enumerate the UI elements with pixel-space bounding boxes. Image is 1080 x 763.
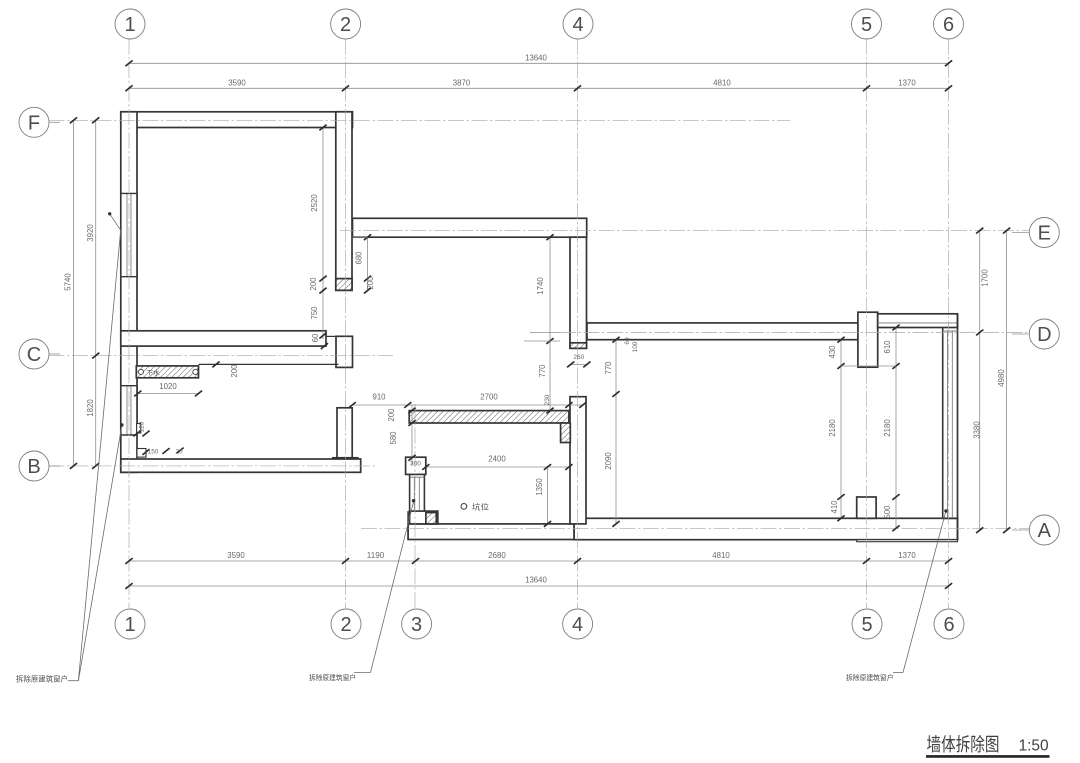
svg-text:750: 750 (309, 306, 319, 319)
svg-text:5: 5 (861, 614, 872, 636)
svg-text:2: 2 (340, 614, 351, 636)
svg-text:910: 910 (373, 392, 386, 402)
svg-text:4: 4 (572, 614, 583, 636)
svg-text:1: 1 (124, 14, 135, 36)
svg-text:E: E (1038, 223, 1051, 245)
svg-text:4: 4 (572, 14, 583, 36)
svg-text:2400: 2400 (488, 454, 506, 464)
svg-text:300: 300 (410, 461, 421, 468)
svg-text:D: D (1037, 324, 1051, 346)
svg-text:1820: 1820 (85, 399, 95, 417)
svg-text:3590: 3590 (228, 77, 246, 87)
svg-text:下水: 下水 (147, 369, 161, 377)
svg-text:1370: 1370 (898, 77, 916, 87)
svg-text:770: 770 (537, 364, 547, 377)
svg-text:B: B (27, 456, 40, 478)
svg-text:770: 770 (603, 361, 613, 374)
svg-text:13640: 13640 (525, 52, 547, 62)
svg-text:A: A (1038, 520, 1052, 542)
svg-text:410: 410 (829, 500, 839, 513)
svg-text:60: 60 (310, 333, 320, 342)
svg-text:150: 150 (148, 449, 159, 456)
svg-text:2: 2 (340, 14, 351, 36)
svg-text:拆除原建筑窗户: 拆除原建筑窗户 (846, 673, 894, 682)
svg-text:2520: 2520 (309, 194, 319, 212)
svg-text:5740: 5740 (63, 273, 73, 291)
svg-text:墙体拆除图: 墙体拆除图 (927, 734, 1000, 755)
svg-text:200: 200 (386, 408, 396, 421)
svg-text:200: 200 (365, 276, 375, 289)
svg-text:3590: 3590 (227, 550, 245, 560)
svg-text:1020: 1020 (159, 381, 177, 391)
svg-text:6: 6 (943, 614, 954, 636)
svg-text:3380: 3380 (972, 421, 982, 439)
svg-text:1700: 1700 (980, 269, 990, 287)
svg-text:120: 120 (139, 421, 146, 432)
svg-text:4810: 4810 (712, 550, 730, 560)
svg-text:260: 260 (573, 354, 584, 361)
svg-text:1190: 1190 (367, 550, 385, 560)
svg-text:430: 430 (827, 345, 837, 358)
svg-text:2180: 2180 (882, 419, 892, 437)
svg-text:坑位: 坑位 (472, 501, 490, 511)
svg-text:60: 60 (624, 337, 631, 344)
svg-text:3: 3 (411, 614, 422, 636)
svg-text:2090: 2090 (603, 452, 613, 470)
svg-text:1370: 1370 (898, 550, 916, 560)
svg-text:3920: 3920 (85, 224, 95, 242)
svg-text:2680: 2680 (488, 550, 506, 560)
svg-text:13640: 13640 (525, 574, 547, 584)
svg-text:200: 200 (229, 364, 239, 377)
svg-text:680: 680 (354, 251, 364, 264)
svg-text:1350: 1350 (534, 478, 544, 496)
svg-text:6: 6 (943, 14, 954, 36)
svg-text:500: 500 (882, 505, 892, 518)
svg-text:3870: 3870 (453, 77, 471, 87)
svg-text:4980: 4980 (996, 369, 1006, 387)
svg-text:F: F (28, 113, 40, 135)
svg-text:C: C (27, 344, 41, 366)
svg-text:580: 580 (388, 431, 398, 444)
svg-text:2700: 2700 (480, 392, 498, 402)
svg-text:1:50: 1:50 (1019, 738, 1050, 755)
svg-text:1: 1 (124, 614, 135, 636)
svg-text:5: 5 (861, 14, 872, 36)
svg-text:1740: 1740 (535, 277, 545, 295)
svg-text:100: 100 (632, 341, 639, 352)
svg-text:拆除原建筑窗户: 拆除原建筑窗户 (309, 673, 356, 682)
svg-text:200: 200 (308, 277, 318, 290)
svg-text:610: 610 (882, 340, 892, 353)
svg-text:2180: 2180 (827, 419, 837, 437)
svg-text:230: 230 (544, 394, 551, 405)
svg-text:拆除原建筑窗户: 拆除原建筑窗户 (16, 675, 68, 684)
svg-text:4810: 4810 (713, 77, 731, 87)
svg-text:20: 20 (175, 449, 182, 456)
